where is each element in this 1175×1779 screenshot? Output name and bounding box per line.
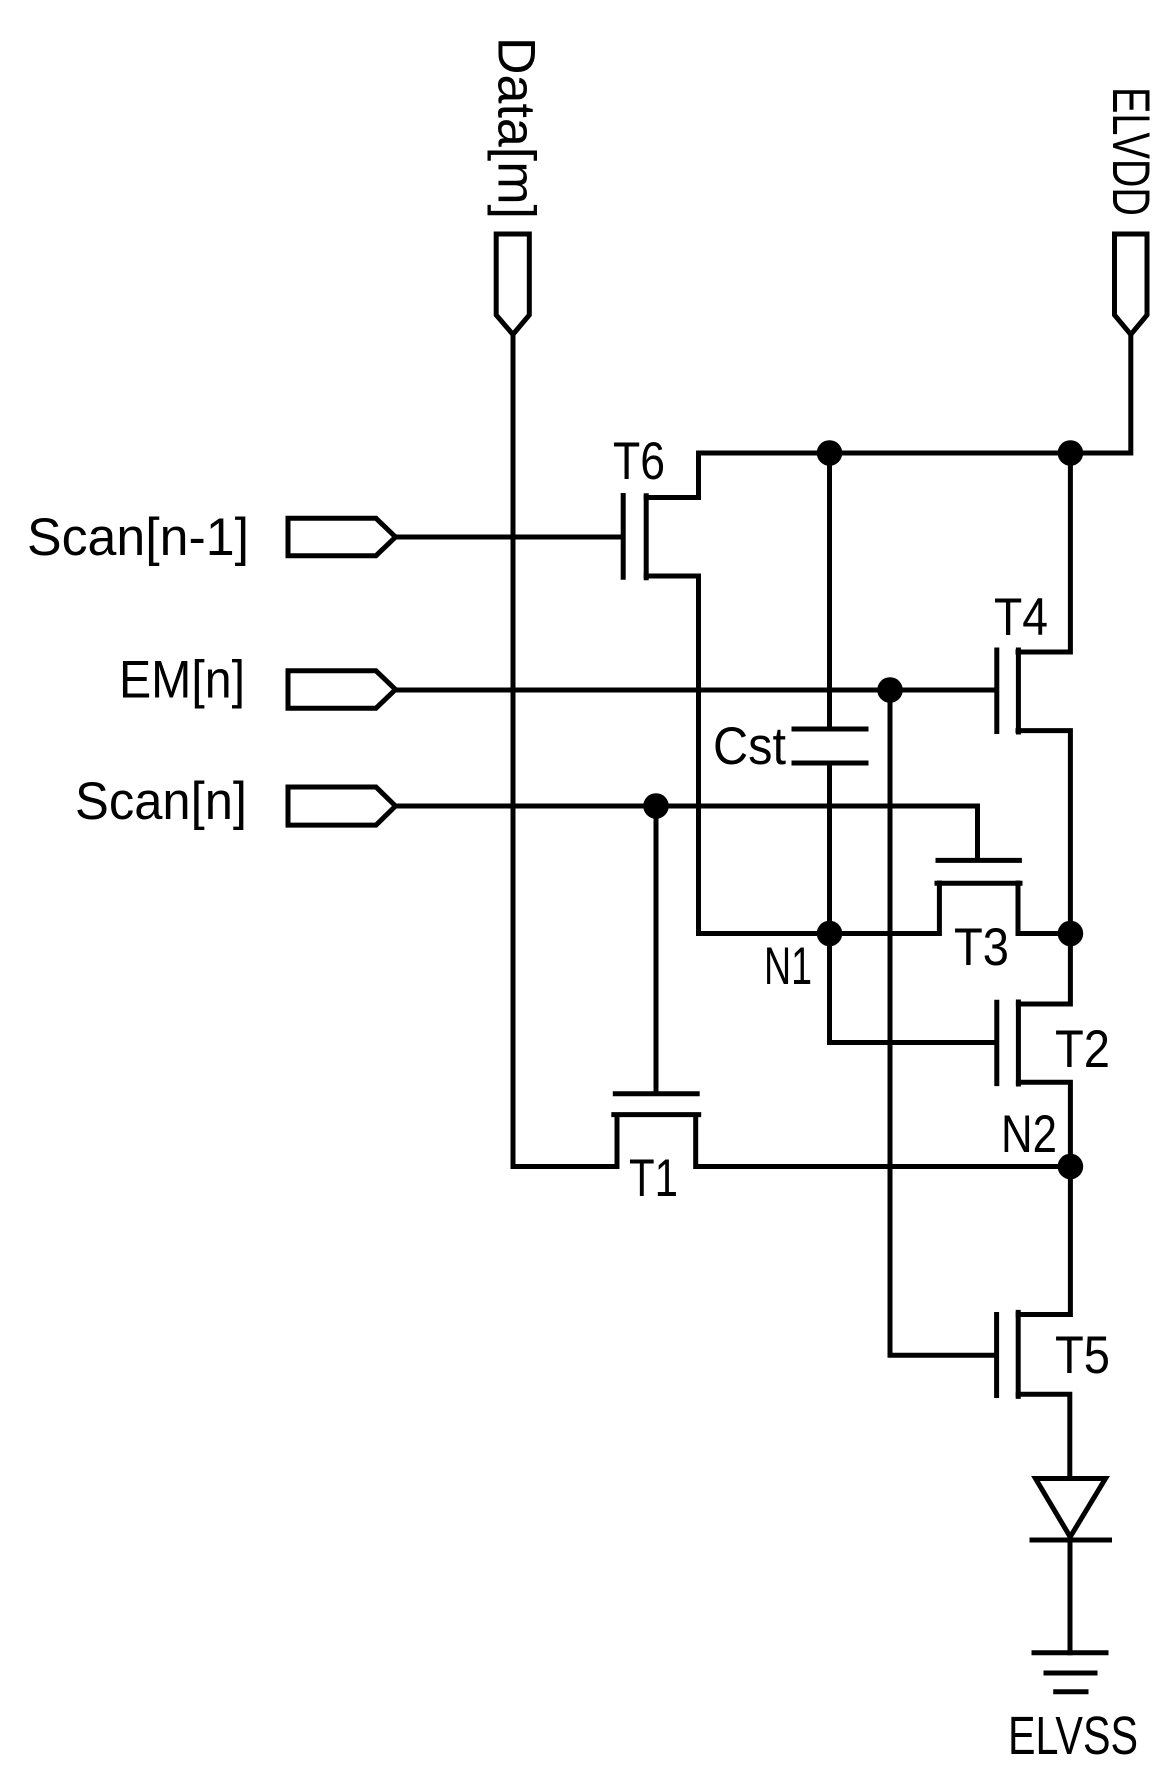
wire N1 down and right to T2 gate bbox=[830, 934, 995, 1043]
wire T2 bottom leg down to N2 bbox=[1018, 1082, 1070, 1166]
capacitor Cst bottom link to N1 bbox=[827, 765, 832, 934]
svg-text:ELVSS: ELVSS bbox=[1008, 1706, 1138, 1766]
wire T6 bottom leg down to node N1 line bbox=[646, 576, 937, 934]
wire T5 bottom leg down to diode bbox=[1018, 1394, 1070, 1477]
svg-text:ELVDD: ELVDD bbox=[1101, 87, 1160, 216]
capacitor Cst top plate bbox=[794, 727, 866, 732]
svg-text:T4: T4 bbox=[994, 588, 1048, 647]
wire Scan[n] to T3 gate feed bbox=[396, 806, 978, 858]
svg-text:Cst: Cst bbox=[713, 717, 786, 776]
svg-text:T1: T1 bbox=[629, 1149, 678, 1208]
ground ELVSS bar 2 bbox=[1046, 1671, 1095, 1676]
svg-text:EM[n]: EM[n] bbox=[119, 651, 245, 710]
wire T6 top leg, ELVDD rail and ELVDD drop bbox=[646, 335, 1131, 498]
node dot T3-T2 bbox=[1058, 921, 1084, 947]
wire N2 down to T5 top leg bbox=[1018, 1167, 1070, 1315]
port ELVDD bbox=[1115, 234, 1148, 335]
port Scan[n] bbox=[288, 787, 396, 825]
svg-text:T3: T3 bbox=[954, 918, 1009, 977]
wire T3 right leg to node bbox=[1018, 883, 1070, 934]
wire node down to T2 top leg bbox=[1018, 934, 1070, 1005]
wire diode to ground bbox=[1068, 1540, 1073, 1653]
transistor T2 gate bar bbox=[994, 1002, 999, 1083]
diode cathode bar bbox=[1032, 1538, 1110, 1543]
svg-text:N2: N2 bbox=[1001, 1105, 1057, 1164]
svg-text:T6: T6 bbox=[613, 432, 665, 491]
port Scan[n-1] bbox=[288, 518, 396, 555]
ground ELVSS bar 3 bbox=[1056, 1689, 1086, 1694]
transistor T5 channel bar bbox=[1016, 1312, 1021, 1396]
wire Scan[n-1] to T6 gate bbox=[396, 535, 622, 540]
port EM[n] bbox=[288, 671, 396, 708]
node dot rail-Cst bbox=[817, 440, 843, 466]
wire EM node down to T5 gate bbox=[890, 690, 994, 1355]
transistor T6 gate bar bbox=[621, 496, 626, 578]
wire T1 right leg and N2 line bbox=[696, 1115, 1071, 1167]
svg-text:T5: T5 bbox=[1055, 1326, 1110, 1385]
capacitor Cst top link bbox=[827, 453, 832, 727]
transistor T5 gate bar bbox=[994, 1315, 999, 1396]
node dot EM-T5 bbox=[877, 677, 903, 703]
node N1 dot bbox=[817, 921, 843, 947]
diode OLED triangle bbox=[1036, 1479, 1106, 1537]
svg-text:N1: N1 bbox=[764, 937, 812, 996]
svg-text:Scan[n]: Scan[n] bbox=[75, 772, 247, 831]
svg-text:Scan[n-1]: Scan[n-1] bbox=[27, 508, 249, 567]
transistor T1 gate bar bbox=[615, 1091, 697, 1096]
wire T4 top leg to rail bbox=[1018, 453, 1070, 652]
transistor T4 gate bar bbox=[994, 650, 999, 732]
ground ELVSS bar 1 bbox=[1034, 1650, 1106, 1655]
wire T3 left leg to N1 line bbox=[937, 883, 942, 934]
capacitor Cst bottom plate bbox=[794, 761, 866, 766]
node dot Scan[n]-T1 bbox=[643, 793, 669, 819]
transistor T1 channel bar bbox=[614, 1112, 699, 1117]
transistor T3 gate bar bbox=[938, 858, 1019, 863]
node N2 dot bbox=[1058, 1154, 1084, 1180]
transistor T3 channel bar bbox=[937, 881, 1020, 886]
wire EM[n] to T4 gate bbox=[396, 688, 995, 693]
transistor T6 channel bar bbox=[644, 496, 649, 578]
port Data[m] bbox=[496, 234, 529, 335]
wire T4 bottom leg down to T3/T2 node bbox=[1018, 731, 1070, 934]
transistor T2 channel bar bbox=[1016, 1002, 1021, 1084]
wire Data[m] vertical down to T1 left leg bbox=[513, 335, 617, 1167]
node dot rail-T4 bbox=[1058, 440, 1084, 466]
svg-text:T2: T2 bbox=[1055, 1020, 1110, 1079]
svg-text:Data[m]: Data[m] bbox=[487, 37, 546, 219]
transistor T4 channel bar bbox=[1016, 650, 1021, 732]
wire Scan node down to T1 gate bbox=[654, 806, 659, 1091]
